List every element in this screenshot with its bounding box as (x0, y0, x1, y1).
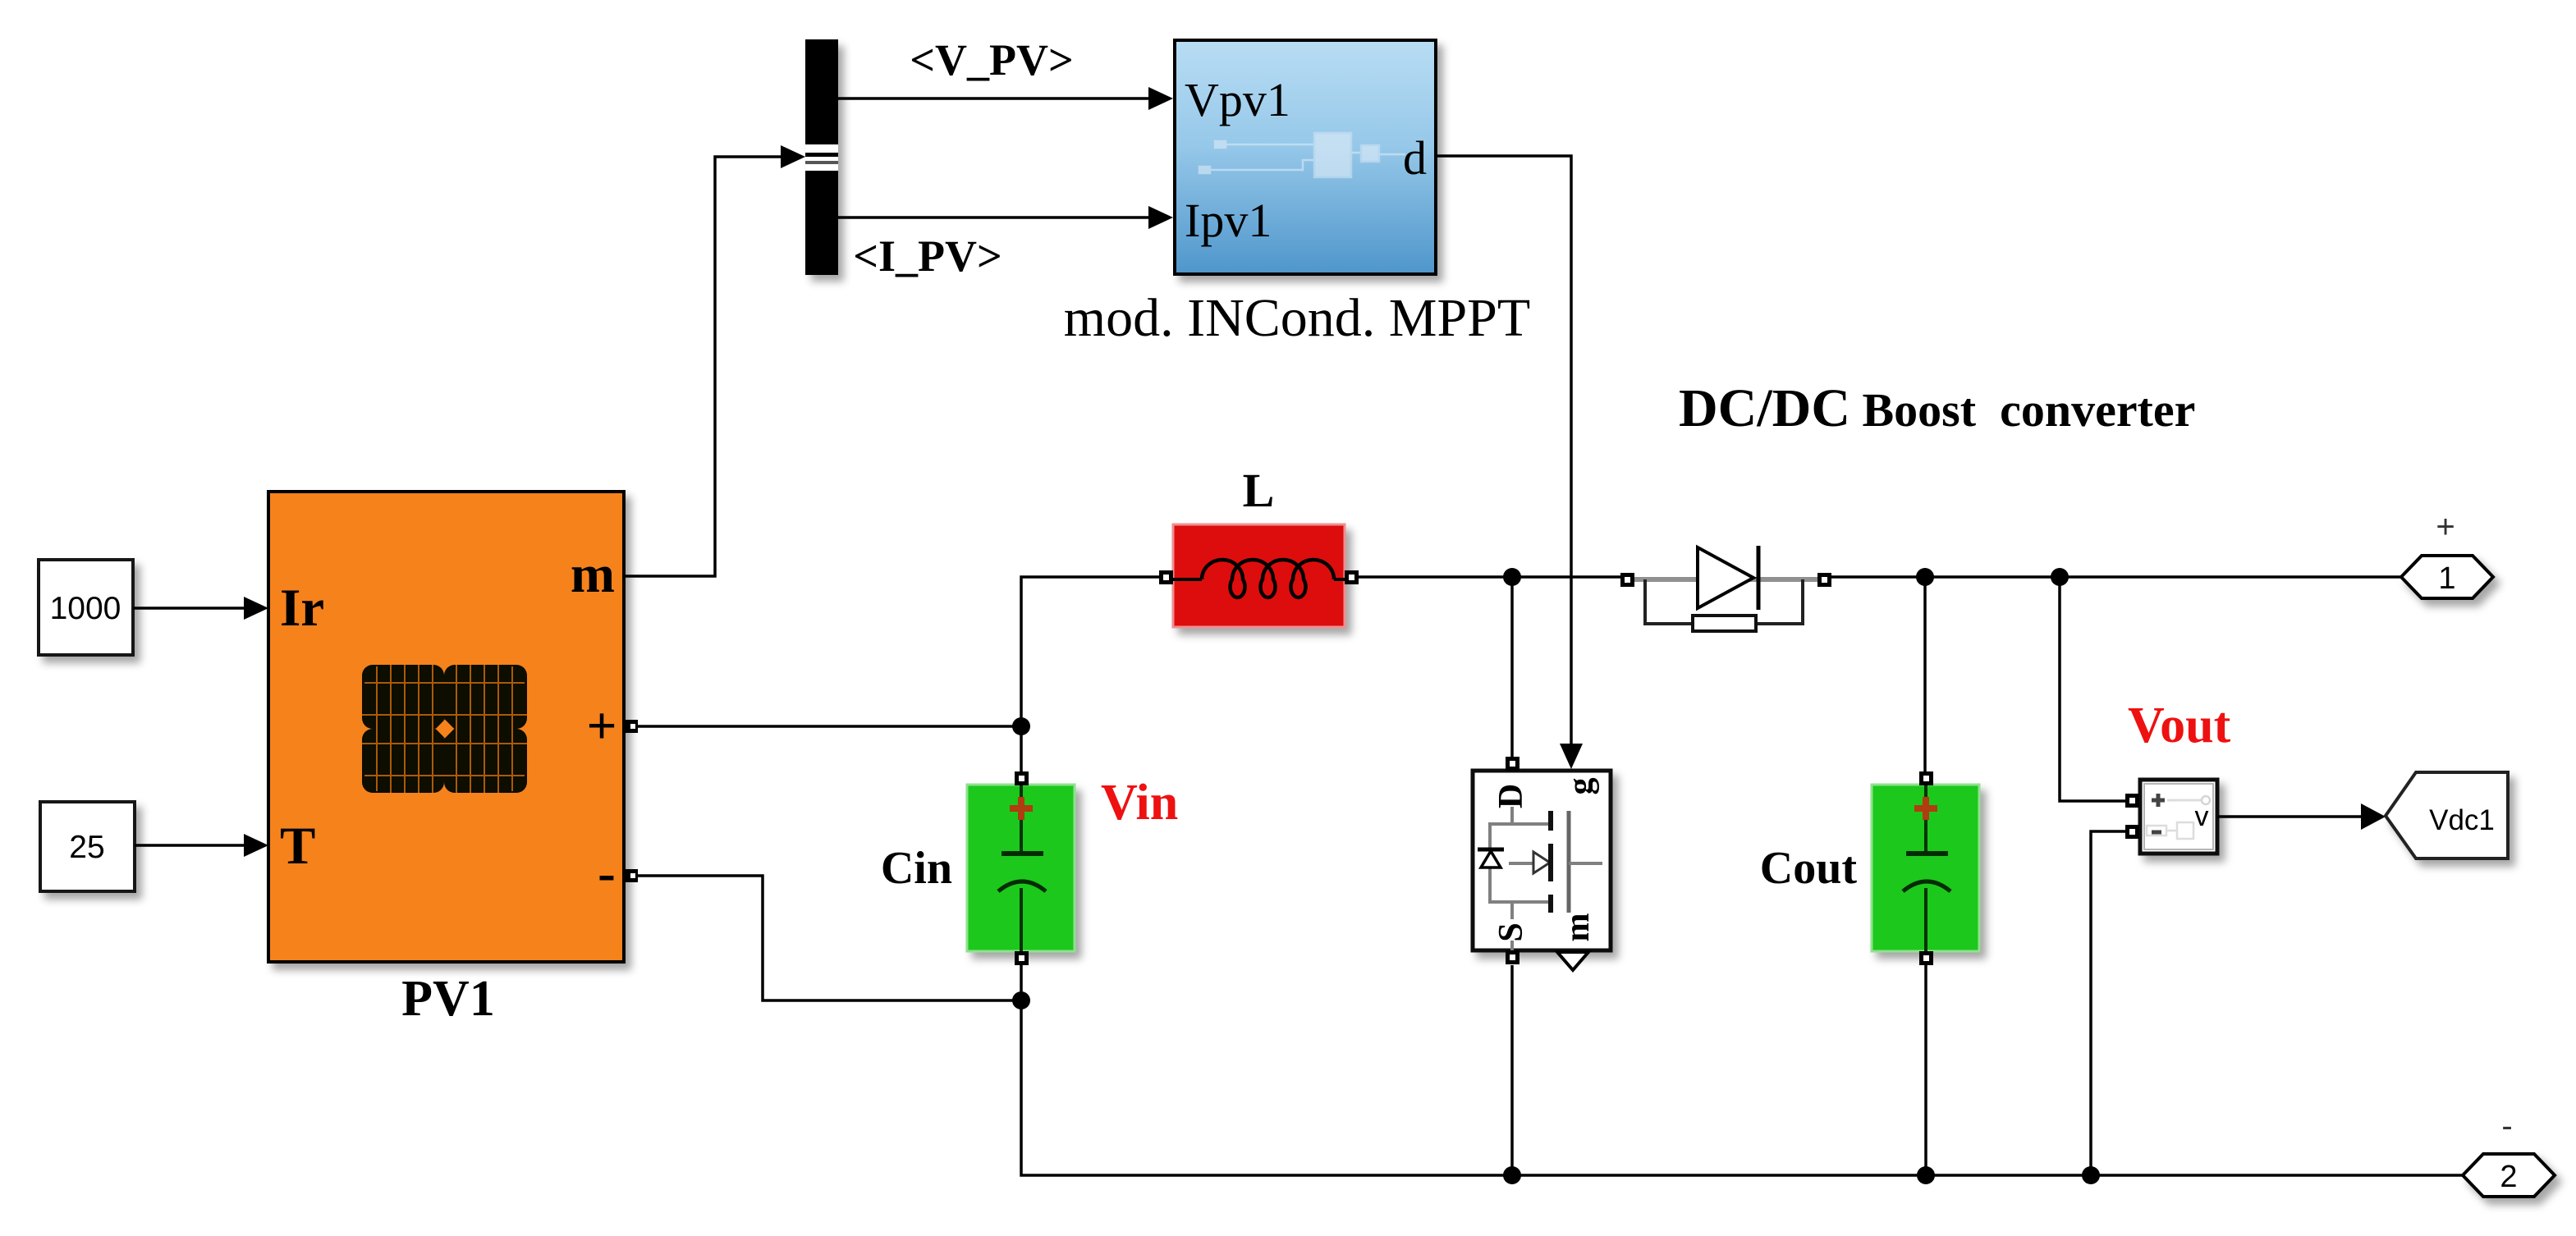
svg-text:+: + (2436, 509, 2455, 545)
wire node A up to L input (1021, 577, 1159, 771)
svg-text:d: d (1403, 131, 1427, 185)
voltmeter icon (2144, 784, 2213, 849)
svg-text:m: m (1559, 913, 1597, 942)
wire Cout bottom to rail (1924, 965, 1927, 1175)
PV1 - port square (625, 869, 638, 882)
svg-text:Cout: Cout (1760, 843, 1858, 894)
svg-text:1000: 1000 (50, 591, 121, 626)
MPPT inner icon (1199, 133, 1405, 177)
output port 2 hexagon (2463, 1154, 2555, 1197)
node G junction dot (1917, 1166, 1935, 1184)
wire bus to Ipv1 (838, 206, 1173, 229)
constant block 1000 (39, 560, 133, 655)
svg-text:2: 2 (2500, 1160, 2517, 1194)
svg-text:Vin: Vin (1101, 775, 1178, 831)
svg-text:25: 25 (69, 830, 104, 865)
svg-text:Ipv1: Ipv1 (1185, 194, 1272, 247)
wire PV1 + to node A (638, 725, 1021, 728)
svg-text:mod. INCond. MPPT: mod. INCond. MPPT (1064, 288, 1530, 348)
wire node C down to Cout (1923, 577, 1927, 771)
wire diode to output port 1 (1831, 575, 2401, 579)
wire voltmeter output to Vdc1 (2217, 803, 2386, 830)
solar panel icon (362, 665, 527, 793)
wire node D down to voltmeter + (2060, 577, 2125, 801)
svg-text:Vpv1: Vpv1 (1185, 73, 1290, 126)
MOSFET D port square (1506, 757, 1519, 771)
wire PV1 - to Cin bottom node (638, 876, 1021, 1000)
diode left port square (1620, 573, 1634, 587)
bus selector bar (805, 39, 838, 275)
capacitor Cout (1872, 785, 1979, 951)
L left port square (1159, 570, 1173, 584)
svg-text:m: m (571, 545, 615, 604)
svg-text:Vdc1: Vdc1 (2429, 804, 2495, 836)
voltmeter Vout block (2140, 780, 2217, 854)
svg-text:Vout: Vout (2128, 698, 2231, 753)
MOSFET m port triangle (1557, 952, 1588, 970)
svg-text:<V_PV>: <V_PV> (910, 35, 1074, 85)
svg-text:T: T (280, 817, 315, 876)
wire m to bus selector (624, 145, 805, 576)
diode right port square (1817, 573, 1831, 587)
MOSFET Q1 (1473, 771, 1611, 950)
svg-text:Ir: Ir (280, 579, 324, 638)
wire bus to Vpv1 (838, 87, 1173, 110)
wire MOSFET source to rail (1510, 965, 1514, 1175)
node F junction dot (1503, 1166, 1521, 1184)
wire L to diode (1359, 575, 1620, 579)
node A junction dot (1012, 717, 1030, 735)
svg-text:S: S (1492, 922, 1530, 941)
svg-text:+: + (586, 697, 616, 756)
capacitor Cin (967, 785, 1075, 951)
inductor L (1173, 524, 1345, 627)
Cout bottom port square (1919, 951, 1933, 965)
wire 25 to T (135, 834, 268, 857)
PV1 + port square (625, 720, 638, 733)
svg-text:-: - (598, 844, 616, 903)
Cin bottom port square (1015, 951, 1029, 965)
voltmeter + port square (2125, 794, 2139, 808)
svg-text:Cin: Cin (881, 843, 952, 894)
svg-text:DC/DC Boost converter: DC/DC Boost converter (1679, 378, 2195, 438)
MPPT controller block U1 (1175, 40, 1436, 274)
wire node B down to MOSFET drain (1510, 577, 1514, 757)
node C junction dot (1916, 568, 1934, 586)
svg-text:-: - (2501, 1108, 2512, 1144)
Cout symbol (1903, 785, 1950, 951)
svg-text:PV1: PV1 (401, 971, 495, 1027)
MOSFET internals (1478, 807, 1602, 950)
svg-text:L: L (1243, 464, 1275, 517)
node H junction dot (2082, 1166, 2100, 1184)
wire voltmeter - to bottom rail (2091, 831, 2125, 1175)
Cin symbol (998, 785, 1046, 951)
svg-text:1: 1 (2438, 561, 2455, 596)
Cin top port square (1015, 771, 1029, 785)
output port 1 hexagon (2401, 556, 2493, 598)
inductor L coil symbol (1173, 560, 1345, 597)
Cout top port square (1919, 771, 1933, 785)
svg-text:<I_PV>: <I_PV> (853, 231, 1002, 281)
wire d to MOSFET gate (1436, 156, 1583, 769)
constant block 25 (40, 802, 135, 891)
MOSFET S port square (1506, 950, 1519, 964)
node D junction dot (2051, 568, 2069, 586)
wire 1000 to Ir (133, 597, 268, 620)
wire Cin bottom to rail (1021, 965, 2463, 1175)
PV array block PV1 (268, 492, 624, 962)
svg-text:D: D (1492, 784, 1530, 808)
node B junction dot (1503, 568, 1521, 586)
diode D1 with snubber (1632, 546, 1820, 631)
svg-text:g: g (1562, 778, 1600, 795)
Goto tag Vdc1 (2386, 772, 2508, 858)
voltmeter - port square (2125, 825, 2139, 839)
L right port square (1345, 570, 1359, 584)
node E junction dot (1012, 991, 1030, 1009)
svg-text:v: v (2195, 801, 2209, 832)
